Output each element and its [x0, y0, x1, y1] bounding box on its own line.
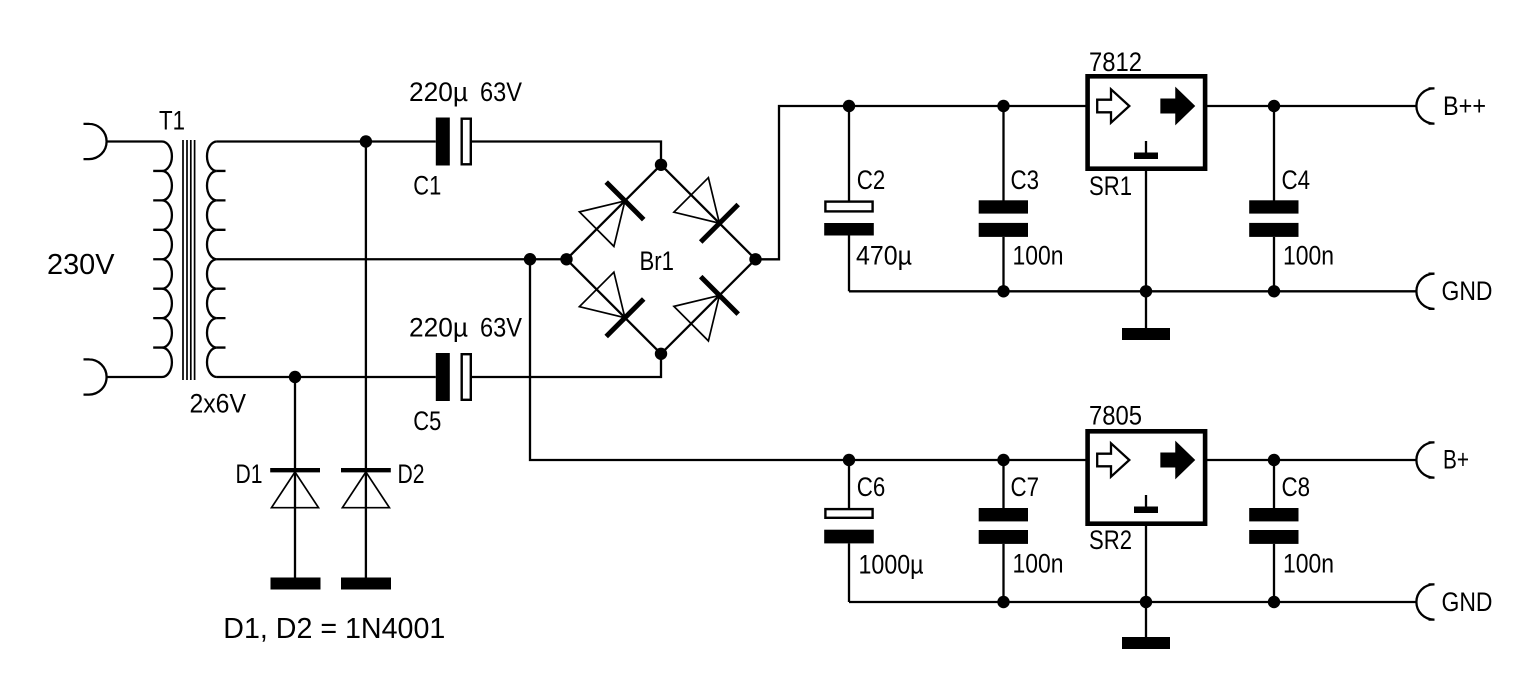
svg-text:D2: D2 [398, 459, 425, 489]
svg-text:220µ: 220µ [409, 77, 468, 107]
svg-text:SR2: SR2 [1089, 525, 1132, 555]
svg-text:GND: GND [1442, 276, 1493, 306]
svg-text:C5: C5 [413, 406, 441, 436]
svg-text:D1: D1 [236, 459, 263, 489]
svg-text:470µ: 470µ [856, 241, 912, 271]
svg-text:7805: 7805 [1089, 401, 1142, 431]
svg-text:C7: C7 [1011, 472, 1040, 502]
svg-text:2x6V: 2x6V [190, 388, 247, 418]
svg-text:C4: C4 [1282, 165, 1311, 195]
svg-text:B++: B++ [1443, 91, 1486, 121]
svg-text:C1: C1 [413, 171, 441, 201]
svg-text:63V: 63V [480, 77, 522, 107]
svg-text:220µ: 220µ [409, 313, 468, 343]
svg-text:100n: 100n [1013, 241, 1064, 271]
svg-text:B+: B+ [1443, 445, 1469, 475]
svg-text:230V: 230V [47, 249, 115, 281]
svg-text:1000µ: 1000µ [859, 549, 924, 579]
svg-text:C2: C2 [857, 165, 886, 195]
svg-text:100n: 100n [1283, 549, 1334, 579]
svg-text:C3: C3 [1011, 165, 1040, 195]
svg-text:7812: 7812 [1089, 47, 1142, 77]
svg-text:SR1: SR1 [1089, 171, 1132, 201]
svg-text:GND: GND [1442, 587, 1493, 617]
svg-text:C6: C6 [857, 472, 886, 502]
svg-text:D1, D2 = 1N4001: D1, D2 = 1N4001 [223, 613, 445, 645]
svg-text:C8: C8 [1282, 472, 1311, 502]
svg-text:100n: 100n [1283, 241, 1334, 271]
svg-text:Br1: Br1 [640, 246, 675, 276]
svg-text:T1: T1 [159, 106, 185, 136]
svg-text:100n: 100n [1013, 549, 1064, 579]
svg-text:63V: 63V [480, 313, 522, 343]
